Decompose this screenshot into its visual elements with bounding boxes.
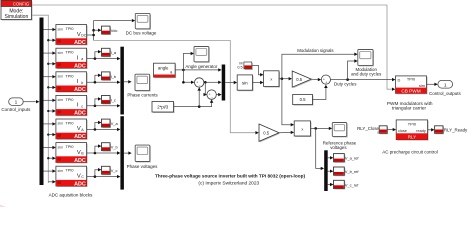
constant block M = 0.5 [245,63,253,70]
wire: sim line stub row 1 [47,39,49,41]
wire: gain to sum4 [311,78,318,80]
probe block I_b [103,73,112,81]
wire: demux to ADC I_c input [44,99,53,101]
svg-text:CONFIG: CONFIG [13,2,29,7]
mux bar: phase currents [120,47,124,115]
svg-text:and duty cycles: and duty cycles [351,72,382,77]
sum junction 1 (angle - 2pi/3) [195,78,204,87]
wire: sum1 out down to sum2 [204,82,206,94]
svg-text:0.5: 0.5 [296,77,302,82]
wire: angle tap to scope [183,54,190,70]
wire: ADC V_B output to mux [87,152,118,154]
product block x (M * sin) [265,72,280,88]
wire: ADC I_c output to mux [87,105,118,107]
svg-text:angle: angle [158,66,169,71]
wire: demux to ADC V_A input [44,123,53,125]
svg-text:D: D [398,77,401,82]
svg-text:−: − [211,96,213,100]
svg-text:I_c: I_c [111,97,116,102]
wire: tap up to probe V_c [95,170,98,177]
sum junction duty cycles (0.5 + m/2) [321,75,330,84]
wire: CONFIG sim distribution to ADC sim inputs [32,15,48,183]
svg-text:TPI0: TPI0 [66,98,74,102]
scope: Phase voltages [136,146,151,162]
wire: ref gain to product2 [279,131,291,133]
ADC block V_A (sim TPI0 / ADC) [57,120,88,140]
probe block Vdc [103,27,112,35]
svg-text:sim: sim [58,27,64,31]
svg-text:close: close [398,129,407,133]
probe block V_c [103,167,112,175]
wire: duty branch to scope [348,61,355,80]
block sin [238,76,253,91]
wire: M to product [252,65,260,74]
wire: sin to product [253,82,261,84]
svg-text:sim: sim [58,145,64,149]
wire: product2 down to ref demux [316,128,321,168]
wire: mux to sin [225,82,234,84]
wire: RLY_Close to RLY [387,129,393,131]
wire: ADC I_b output to mux [87,81,118,83]
svg-text:AC precharge circuit control: AC precharge circuit control [382,150,438,155]
svg-text:Simulation: Simulation [5,14,29,20]
wire: CONFIG sim to CB-PWM sim (top long wire) [32,5,392,89]
ADC block V_C (sim TPI0 / ADC) [57,167,88,187]
config block CONFIG (Mode: Simulation) [2,2,33,21]
demux bar: control inputs [40,18,44,186]
ADC block I_c (sim TPI0 / ADC) [57,96,88,116]
wire: angle down to sum1 [183,70,191,82]
svg-text:ADC: ADC [74,40,86,46]
gain triangle 0.5 (reference, Vdc/2) [260,125,280,142]
svg-text:Control_inputs: Control_inputs [1,107,31,112]
wire: sum1 out to mux [204,81,219,83]
svg-text:sim: sim [58,75,64,79]
svg-text:2*pi/3: 2*pi/3 [157,105,169,110]
svg-text:a: a [81,57,83,61]
svg-text:V_c: V_c [111,168,118,173]
scope: angle [195,48,210,63]
svg-text:V_a_ref: V_a_ref [345,156,360,161]
svg-text:c: c [81,104,83,108]
svg-text:Phase currents: Phase currents [127,93,158,98]
svg-text:Vdc: Vdc [111,28,118,33]
svg-text:ready: ready [416,129,426,133]
wire: 0.5 to sum4 bottom [312,88,326,100]
svg-text:+: + [325,80,327,84]
svg-text:sim: sim [58,169,64,173]
svg-text:Angle generator: Angle generator [185,64,218,69]
wire: sum2 out to mux [216,94,218,96]
wire: demux to ADC V_C input [44,170,53,172]
wire: duty cycles to PWM [331,79,392,81]
svg-text:V_c_ref: V_c_ref [345,182,359,187]
gain triangle 0.5 (duty) [293,72,312,88]
probe block I_c [103,97,112,105]
svg-text:x: x [270,76,272,81]
svg-text:TPI0: TPI0 [66,27,74,31]
wire+probe V_b_ref [328,170,331,172]
wire: sim line stub row 3 [47,86,49,88]
probe block I_a [103,49,112,57]
svg-text:Control_outputs: Control_outputs [429,91,462,96]
sum junction 2 (minus 2pi/3 again) [207,90,216,99]
svg-text:b: b [81,81,83,85]
svg-text:ADC: ADC [74,134,86,140]
svg-text:Phase voltages: Phase voltages [127,164,159,169]
ADC block I_a (sim TPI0 / ADC) [57,49,88,69]
svg-text:1: 1 [444,82,447,88]
input port 1 Control_inputs [9,98,24,106]
svg-text:DC: DC [81,34,87,38]
wire: product out [279,78,289,80]
constant block 0.5 [294,95,314,105]
wire: PWM to output port [427,83,435,85]
wire: sim line stub row 4 [47,110,49,112]
svg-text:TPI0: TPI0 [66,122,74,126]
wire: Vdc tap to probe [94,29,98,31]
svg-text:Modulation signals: Modulation signals [297,48,334,53]
svg-text:C: C [81,175,84,179]
demux bar: reference voltages [324,150,328,191]
wire: ADC I_a output to mux [87,58,118,60]
svg-text:TPI0: TPI0 [66,51,74,55]
scope: Modulation and duty cycles [359,51,374,67]
wire: sim line stub row 6 [47,157,49,159]
svg-text:V_a: V_a [111,121,119,126]
wire: RLY to RLY_Ready [428,129,432,131]
svg-text:0.5: 0.5 [300,97,307,102]
wire: sim line stub row 5 [47,133,49,135]
wire+probe V_a_ref [328,157,331,159]
svg-text:1: 1 [15,100,18,106]
svg-text:RLY_Ready: RLY_Ready [444,128,468,133]
wire: tap up to probe V_b [95,146,98,153]
wire: demux to ADC V_DC input [44,29,53,31]
svg-text:I_a: I_a [111,50,117,55]
svg-text:ADC: ADC [74,111,86,117]
svg-text:voltages: voltages [330,145,347,150]
wire: modulation signals down to reference product [282,79,291,125]
scope: Phase currents [136,75,151,91]
svg-text:ADC aquisition blocks: ADC aquisition blocks [49,193,94,198]
ADC block V_B (sim TPI0 / ADC) [57,144,88,164]
probe RLY_Ready [436,127,444,135]
svg-text:x: x [301,126,303,131]
svg-text:TPI0: TPI0 [66,74,74,78]
block CB PWM (D TPI0 sim / CB PWM) [397,77,428,94]
svg-text:Three-phase voltage source inv: Three-phase voltage source inverter buil… [155,174,305,179]
svg-text:sim: sim [419,83,425,88]
ADC block V_DC (sim TPI0 / ADC) [57,26,88,46]
output port 1 Control_outputs [438,80,453,88]
svg-text:I_b: I_b [111,74,116,79]
svg-text:0.5: 0.5 [237,65,242,69]
svg-text:Duty cycles: Duty cycles [334,82,357,87]
block RLY (TPI0 close/ready) [397,121,428,141]
svg-text:TPI0: TPI0 [66,145,74,149]
scope: Reference phase voltages [333,124,347,138]
svg-text:V_b_ref: V_b_ref [345,169,360,174]
svg-text:sim: sim [58,122,64,126]
wire: ADC V_A output to mux [87,128,118,130]
svg-text:TPI0: TPI0 [407,76,416,81]
wire: tap up to probe I_b [95,75,98,82]
mux bar: phase voltages [120,116,124,189]
block: angle generator (angle theta) [155,64,177,78]
svg-text:sim: sim [58,51,64,55]
wire: product2 out to scope [311,127,330,129]
svg-text:triangular carrier: triangular carrier [392,105,427,110]
svg-text:(c) Imperix Switzerland 2023: (c) Imperix Switzerland 2023 [198,180,259,186]
svg-text:RLY: RLY [408,135,416,140]
wire: voltages mux to scope [124,152,128,154]
svg-text:−: − [199,84,201,88]
wire: Vdc vertical branch (scope above / reference below) [94,21,132,41]
wire: sim line stub row 2 [47,63,49,65]
wire: currents mux to scope [124,81,128,83]
constant block 2*pi/3 [153,103,175,114]
svg-text:ADC: ADC [74,181,86,187]
svg-text:ADC: ADC [74,87,86,93]
wire: demux to ADC I_b input [44,76,53,78]
wire: angle output to mux [175,69,218,71]
svg-text:V_b: V_b [111,145,118,150]
probe block V_b [103,144,112,152]
wire: ADC V_C output to mux [87,176,118,178]
wire: ADC Vdc output [87,34,94,36]
svg-text:TPI0: TPI0 [408,121,417,126]
ADC block I_b (sim TPI0 / ADC) [57,73,88,93]
svg-text:ADC: ADC [74,158,86,164]
scope: DC bus voltage [136,14,151,29]
wire: sim line stub row 7 [48,181,52,183]
svg-text:RLY_Close: RLY_Close [357,126,379,131]
wire: modulation signals to scope [282,54,355,78]
mux bar: three phase angles [222,65,226,101]
svg-text:ADC: ADC [74,63,86,69]
svg-text:sim: sim [58,98,64,102]
svg-text:CB PWM: CB PWM [401,89,420,94]
svg-text:TPI0: TPI0 [66,169,74,173]
svg-text:sin: sin [242,80,248,85]
wire: 2pi/3 to sum bottoms [174,103,212,107]
wire: tap up to probe I_a [95,52,98,59]
wire: demux to ADC V_B input [44,147,53,149]
wire+probe V_c_ref [328,184,331,186]
wire: Control_inputs to demux [23,101,36,103]
wire: tap up to probe V_a [95,123,98,130]
wire: tap up to probe I_c [95,99,98,106]
wire: Vdc to reference 0.5 gain (long) [94,41,256,133]
product block x (reference voltages) [295,122,311,137]
wire: demux to ADC I_a input [44,52,53,54]
probe block V_a [103,120,112,128]
svg-text:θ: θ [170,71,172,75]
svg-text:0.5: 0.5 [263,131,269,136]
svg-text:DC bus voltage: DC bus voltage [126,31,157,36]
